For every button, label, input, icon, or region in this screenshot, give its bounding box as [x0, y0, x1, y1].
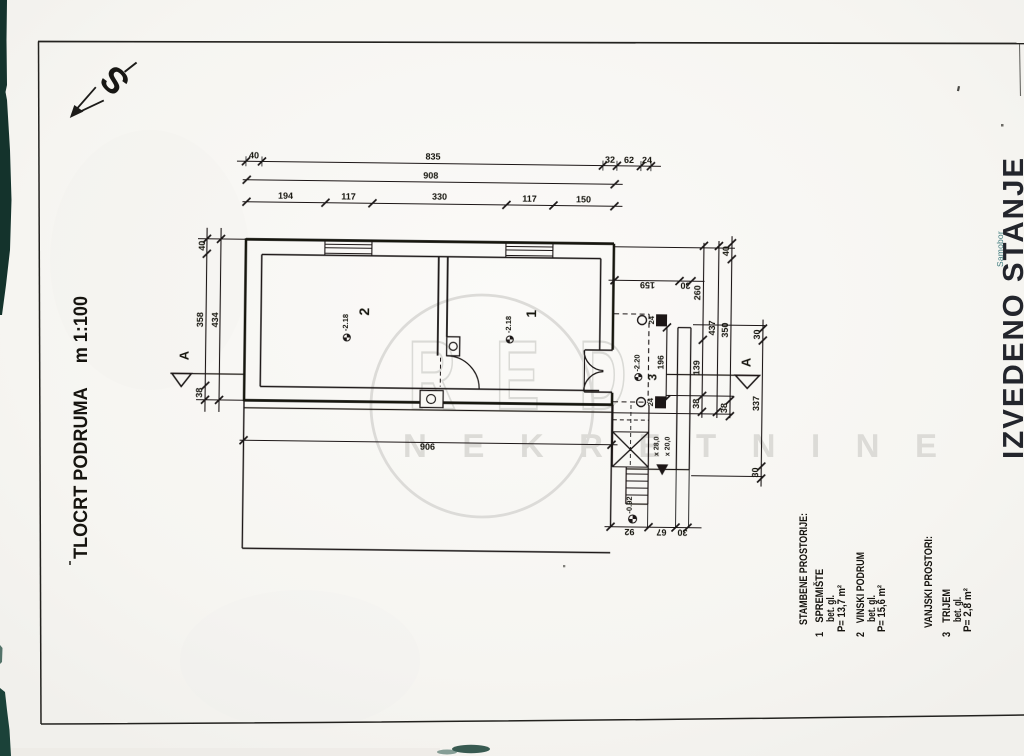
svg-text:2 VINSKI PODRUM: 2 VINSKI PODRUM: [855, 552, 867, 637]
section triangle left: [172, 373, 192, 386]
right chain C1 line: [702, 243, 704, 418]
svg-text:40: 40: [721, 246, 731, 256]
partition wall: [438, 257, 439, 356]
left chain1 ticks: [201, 235, 211, 404]
left extension lines: [196, 239, 248, 401]
right chain C4 ticks: [757, 325, 767, 483]
svg-text:NEKRETNINE: NEKRETNINE: [403, 427, 973, 464]
svg-text:-2.18: -2.18: [504, 316, 513, 333]
svg-text:260: 260: [692, 285, 702, 300]
right chain C4 line: [761, 320, 763, 487]
stray scan speck 1: [957, 86, 960, 91]
terrace right edge: [611, 406, 612, 527]
right extension line top corner: [615, 247, 735, 248]
svg-text:159: 159: [640, 280, 655, 290]
right extension line porch bottom to far chain: [691, 475, 763, 478]
svg-text:358: 358: [195, 312, 205, 327]
north arrow shaft lower line: [76, 100, 104, 113]
building outer wall bottom: [244, 400, 612, 404]
svg-text:434: 434: [210, 312, 220, 327]
porch slab bottom: [626, 468, 689, 471]
dim row2 line (908): [243, 180, 623, 185]
svg-text:IZVEDENO STANJE: IZVEDENO STANJE: [998, 156, 1024, 459]
partition flue circle: [449, 342, 457, 350]
svg-text:40: 40: [249, 150, 259, 160]
svg-text:32: 32: [605, 155, 615, 165]
entry door leaf top: [585, 349, 613, 351]
bottom wall meter circle: [427, 394, 436, 403]
left chain2 ticks: [215, 235, 225, 404]
svg-text:3: 3: [645, 373, 659, 380]
scanner bottom teal smudge: [452, 745, 490, 753]
dim row1 tick guides: [246, 156, 651, 171]
stairs break cross: [612, 432, 648, 467]
svg-text:38: 38: [691, 399, 701, 409]
sheet frame border left: [39, 42, 42, 725]
svg-text:908: 908: [423, 170, 438, 180]
svg-text:24: 24: [646, 397, 655, 406]
stairs direction arrow: [656, 464, 668, 475]
svg-text:A: A: [177, 350, 192, 360]
stray scan speck 2: [1001, 124, 1004, 127]
dim 906 line: [240, 440, 618, 445]
svg-text:-2.18: -2.18: [341, 314, 350, 331]
svg-text:x 28,0: x 28,0: [653, 436, 660, 456]
right chain C3 labels 40/350/38: [719, 246, 731, 413]
partition flue box: [447, 337, 460, 356]
right extension line column bottom: [666, 394, 733, 397]
dim row3 ticks: [242, 198, 618, 211]
right extension line building bottom: [613, 413, 733, 414]
left chain1 labels 40/358/38: [194, 241, 207, 398]
svg-text:196: 196: [655, 355, 665, 370]
porch column circle bottom: [636, 398, 645, 407]
entry door leaf bottom: [584, 391, 612, 393]
svg-text:-2.20: -2.20: [632, 354, 641, 371]
sheet frame border bottom: [41, 715, 1024, 724]
scanner edge fleck: [0, 645, 3, 664]
right chain C1 ticks: [698, 242, 708, 416]
svg-text:P= 13,7 m²: P= 13,7 m²: [836, 585, 848, 632]
svg-text:437: 437: [707, 320, 717, 335]
dim 906 ticks: [239, 436, 615, 449]
svg-text:67: 67: [656, 527, 666, 537]
right chain C3 line: [730, 236, 732, 418]
svg-text:P= 15,6 m²: P= 15,6 m²: [876, 585, 888, 632]
svg-text:30: 30: [680, 281, 690, 291]
porch dashed boundary top: [614, 313, 649, 315]
dim row3 labels: [278, 190, 591, 205]
window W1: [325, 240, 372, 256]
svg-text:38: 38: [719, 403, 729, 413]
bottom wall meter box: [420, 390, 443, 407]
building outer wall top: [246, 239, 614, 243]
svg-text:30: 30: [752, 329, 762, 339]
porch dashed boundary right: [648, 314, 649, 401]
level mark porch symbol: [635, 374, 642, 381]
svg-text:x 20,0: x 20,0: [664, 437, 671, 457]
porch slab band left: [676, 328, 678, 470]
svg-text:-0.92: -0.92: [625, 496, 634, 513]
inner wall face left: [260, 254, 262, 386]
svg-text:350: 350: [720, 323, 730, 338]
watermark circle: [371, 295, 593, 517]
svg-text:62: 62: [624, 155, 634, 165]
svg-text:30: 30: [677, 528, 687, 538]
dim row1 line (40|835|32|62|24): [237, 161, 661, 166]
stairs lower flight sides: [626, 467, 648, 504]
right chain C1 labels 260/139/38: [691, 285, 703, 409]
dim row3 line (194|117|330|117|150): [242, 202, 622, 207]
right chain C3 ticks: [726, 239, 736, 420]
entry door arc top: [584, 350, 604, 370]
porch slab band right: [689, 328, 691, 470]
svg-text:Samobor: Samobor: [995, 231, 1005, 267]
level mark room2 symbol: [343, 334, 350, 341]
svg-text:A: A: [738, 357, 753, 367]
svg-text:38: 38: [194, 388, 204, 398]
window W2: [506, 242, 553, 258]
svg-text:150: 150: [576, 194, 591, 204]
svg-text:24: 24: [642, 155, 652, 165]
bottom dim extensions: [648, 469, 690, 527]
inner wall face bottom: [260, 386, 599, 390]
building outer wall right upper: [613, 244, 614, 350]
dim 196 ticks: [662, 323, 671, 403]
stray scan speck 3: [69, 561, 71, 565]
terrace left edge: [242, 401, 244, 548]
porch column circle top: [637, 316, 646, 325]
scanner edge strip left upper: [0, 0, 12, 315]
stairs treads: [612, 432, 648, 467]
section line A left: [170, 372, 244, 375]
right chain C2 ticks: [713, 242, 723, 416]
inner wall face top: [262, 254, 601, 258]
building outer wall left: [244, 238, 246, 401]
svg-text:92: 92: [624, 527, 634, 537]
stairs center dashed line: [629, 405, 632, 467]
svg-text:2: 2: [356, 308, 372, 316]
dim 159|30 ticks: [610, 276, 695, 285]
svg-text:337: 337: [751, 396, 761, 411]
interior door leaf dashed: [439, 358, 441, 387]
sheet frame border top: [38, 42, 1024, 44]
porch dashed boundary bottom: [613, 401, 648, 403]
scanner edge strip left lower: [0, 688, 11, 756]
building outer wall right lower: [611, 393, 614, 406]
left dim chain 2 line (434): [219, 228, 221, 412]
porch slab top cap: [678, 327, 691, 329]
dim row1 ticks: [242, 157, 655, 170]
stairs side right: [648, 405, 649, 504]
dim 196 line: [665, 327, 668, 399]
porch column square bottom: [655, 396, 666, 408]
svg-text:139: 139: [691, 360, 701, 375]
stairs lower treads: [626, 474, 648, 495]
right extension line porch top to far chain: [693, 324, 765, 327]
north arrow shaft upper line: [75, 87, 96, 111]
svg-text:P= 2,8 m²: P= 2,8 m²: [962, 588, 974, 632]
dim 159|30 line: [609, 280, 705, 281]
svg-text:40: 40: [197, 241, 207, 251]
left dim chain 1 line: [205, 228, 207, 412]
level mark room1 symbol: [506, 336, 513, 343]
interior door swing arc: [446, 356, 479, 389]
level mark -0.92 symbol: [629, 515, 637, 523]
section line A right: [666, 374, 760, 375]
bottom dim labels 92/67/30: [624, 527, 687, 538]
scanner bottom smudge tail: [437, 750, 457, 755]
north arrow shaft tail segment: [125, 63, 137, 72]
svg-text:194: 194: [278, 191, 293, 201]
svg-text:VANJSKI PROSTORI:: VANJSKI PROSTORI:: [923, 536, 935, 628]
right chain C4 labels 30/337/30: [750, 329, 762, 477]
entry door arc bottom: [584, 371, 604, 391]
stairs side left: [611, 405, 614, 467]
svg-text:TLOCRT PODRUMA m 1:100: TLOCRT PODRUMA m 1:100: [70, 296, 92, 559]
svg-text:117: 117: [522, 194, 537, 204]
svg-text:30: 30: [750, 467, 760, 477]
sheet frame border right stub: [1020, 44, 1021, 96]
dim row1 labels: [249, 149, 652, 165]
stairs upper dashed treads: [613, 413, 649, 420]
entry door tips line: [583, 350, 586, 392]
bottom dim 92|67|30 line: [605, 527, 702, 528]
svg-text:STAMBENE PROSTORIJE:: STAMBENE PROSTORIJE:: [798, 513, 810, 625]
inner wall face right: [600, 259, 601, 350]
right chain C2 line: [717, 241, 719, 418]
dim row2 ticks: [243, 176, 619, 189]
svg-text:117: 117: [341, 191, 356, 201]
north arrowhead: [70, 105, 84, 118]
section triangle right: [735, 375, 759, 388]
terrace upper line: [244, 408, 612, 412]
svg-text:330: 330: [432, 192, 447, 202]
svg-text:1: 1: [523, 310, 539, 318]
porch column square top: [656, 314, 667, 326]
svg-text:835: 835: [425, 151, 440, 161]
bottom dim ticks: [606, 523, 691, 532]
terrace bottom edge: [242, 548, 610, 552]
svg-text:24: 24: [647, 315, 656, 324]
stray scan speck 4: [563, 565, 565, 567]
svg-text:906: 906: [420, 441, 435, 451]
